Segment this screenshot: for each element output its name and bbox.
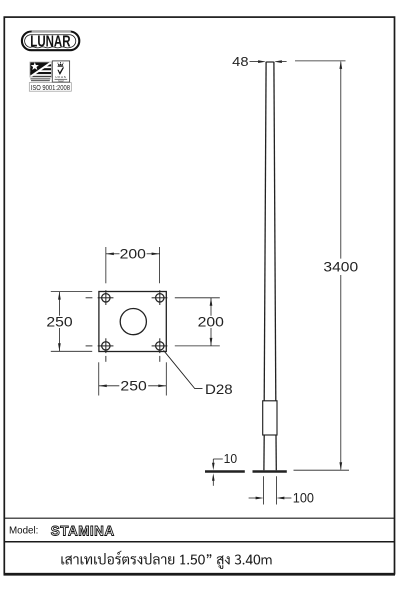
svg-text:LUNAR: LUNAR xyxy=(30,33,70,50)
svg-text:250: 250 xyxy=(120,379,147,394)
svg-text:100: 100 xyxy=(293,491,315,506)
svg-text:UKAS: UKAS xyxy=(55,75,66,79)
svg-text:250: 250 xyxy=(46,315,73,330)
svg-text:200: 200 xyxy=(198,314,225,329)
svg-text:3400: 3400 xyxy=(323,260,358,275)
svg-text:STAMINA: STAMINA xyxy=(51,524,115,539)
svg-text:Model:: Model: xyxy=(9,526,38,537)
svg-text:10: 10 xyxy=(224,452,238,466)
svg-text:D28: D28 xyxy=(205,382,233,397)
svg-text:200: 200 xyxy=(120,246,147,261)
svg-text:ISO 9001:2008: ISO 9001:2008 xyxy=(31,83,70,92)
svg-text:48: 48 xyxy=(232,54,248,69)
